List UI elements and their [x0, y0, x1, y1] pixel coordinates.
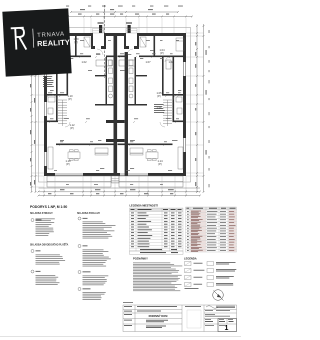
steps between terraces: [112, 176, 120, 183]
party wall: [114, 33, 129, 176]
svg-text:(P): (P): [160, 51, 164, 55]
vent symbol: [98, 23, 133, 34]
interior door openings / fixtures: [48, 60, 183, 169]
svg-text:(P): (P): [66, 162, 70, 166]
left exterior wall: [44, 33, 47, 176]
left dim labels: [30, 84, 35, 186]
right dim labels: [195, 30, 209, 187]
svg-text:1.07: 1.07: [145, 60, 151, 64]
terrace left: [47, 176, 111, 187]
logo TRNAVA REALITY: [2, 8, 71, 76]
bottom dim labels: [48, 189, 174, 194]
skladba strechy: [30, 212, 55, 236]
svg-text:(P): (P): [158, 162, 162, 166]
staircase right: [163, 100, 172, 126]
north arrow: [213, 290, 224, 301]
svg-text:SKLADBA OBVODOVÉHO PLÁŠŤA: SKLADBA OBVODOVÉHO PLÁŠŤA: [30, 244, 69, 247]
bottom dimension chains: [38, 188, 202, 197]
svg-text:1.02: 1.02: [81, 60, 87, 64]
small wall hatch blocks: [106, 120, 125, 142]
svg-text:REALITY: REALITY: [37, 38, 70, 49]
bottom exterior wall: [44, 173, 186, 176]
svg-text:SKLADBA PODLAHY: SKLADBA PODLAHY: [77, 212, 100, 215]
central hall walls: [95, 57, 147, 106]
title block: [123, 302, 237, 332]
top extension lines: [44, 18, 186, 33]
roof overhang outline: [39, 28, 191, 183]
svg-text:PODORYS 1.NP, M 1:50: PODORYS 1.NP, M 1:50: [30, 205, 67, 209]
interior walls left unit: [47, 36, 114, 145]
legenda (hatch boxes): [184, 257, 236, 289]
annotation block right: [154, 104, 165, 113]
right wall windows: [184, 62, 186, 152]
bottom sliding windows: [55, 174, 148, 175]
svg-text:(P): (P): [68, 97, 72, 101]
central fixtures (wc, sinks): [109, 60, 134, 98]
left dimension chains: [31, 74, 45, 193]
right extension lines: [186, 33, 204, 176]
skladba podlahy: [77, 212, 116, 300]
poznamky: [133, 256, 182, 292]
svg-text:1: 1: [225, 325, 229, 332]
table okna dvere (pink): [186, 207, 237, 210]
entrance steps: [93, 29, 138, 34]
svg-text:(P): (P): [70, 126, 74, 130]
svg-text:(P): (P): [157, 94, 161, 98]
centerline dashed: [104, 5, 106, 78]
entrance recess walls: [91, 33, 139, 49]
scan edge line: [0, 336, 241, 338]
room labels: [49, 37, 174, 166]
staircase left: [58, 100, 67, 126]
scattered dimension texts in plan: [50, 58, 181, 169]
terrace right: [119, 176, 183, 187]
right exterior wall: [183, 33, 186, 176]
svg-text:LEGENDA MIESTNOSTÍ: LEGENDA MIESTNOSTÍ: [130, 205, 158, 208]
svg-text:SKLADBA STRECHY: SKLADBA STRECHY: [30, 212, 53, 215]
top dimension labels: [66, 6, 183, 15]
skladba obvodoveho plasta: [30, 244, 69, 285]
left wall windows: [45, 62, 47, 166]
svg-text:LEGENDA: LEGENDA: [184, 257, 197, 261]
exterior top wall: [44, 33, 186, 36]
top dimension chain: [38, 11, 194, 18]
interior walls right unit: [118, 36, 184, 145]
annotation block left: [43, 76, 54, 87]
interior tick clusters: [47, 53, 180, 146]
furniture & doors: [49, 37, 184, 161]
right dimension chains: [196, 24, 205, 193]
svg-text:(P): (P): [74, 40, 78, 44]
extra small labels: [50, 40, 179, 185]
bottom extension lines: [44, 176, 186, 196]
svg-text:1.08: 1.08: [168, 60, 174, 64]
